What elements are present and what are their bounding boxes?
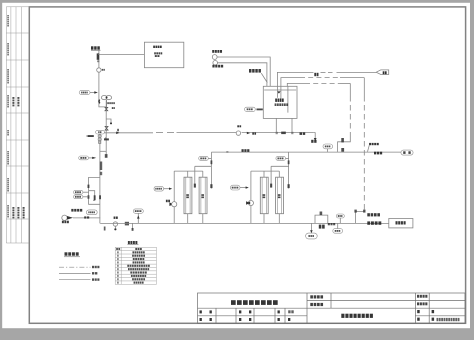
company name 中国环境保护公司	[231, 300, 236, 305]
valve on drop C	[341, 138, 344, 142]
flow arrow A1	[116, 132, 119, 135]
label 日	[417, 318, 420, 321]
instrument bubble FI2	[86, 210, 97, 215]
legend line 3 solid	[59, 279, 91, 281]
strainer chain under FI1	[98, 135, 101, 138]
drain loop on header	[315, 215, 328, 223]
dark component on header	[319, 225, 322, 229]
concentrate line C	[287, 83, 305, 86]
RO bank 2 inlet arrow	[246, 202, 250, 205]
pump P1 label	[107, 102, 109, 104]
inline flow indicator FI1	[96, 130, 105, 134]
sheet size A 2	[288, 310, 290, 313]
valve V3 bowtie	[105, 126, 108, 130]
drawing title 反渗透系统流程图	[341, 314, 344, 318]
bypass valve marks	[88, 185, 90, 188]
RO bank 1 vessels and piping	[184, 177, 192, 214]
legend line 2 solid	[59, 272, 91, 274]
legend line 1 dash-dot	[59, 266, 91, 268]
title block grid	[198, 293, 466, 323]
equipment table title 设备材料表	[128, 241, 130, 244]
valve V2 discharge	[105, 107, 108, 110]
bypass loop	[89, 177, 100, 204]
label 浓水	[314, 73, 316, 76]
pump P2 on header	[236, 131, 240, 135]
RO bank 2 vessels and piping	[260, 177, 268, 214]
drain oval 2	[337, 223, 339, 228]
sample branch with valve	[100, 150, 106, 152]
product line	[211, 151, 401, 153]
joint mark drop 1	[276, 132, 278, 134]
waste treatment box	[389, 219, 413, 228]
label 设计阶段	[417, 302, 419, 305]
instrument bubble PI4	[133, 209, 143, 213]
label 项目名称	[310, 303, 313, 306]
bypass inner branch	[89, 191, 95, 201]
dosing unit D1	[212, 55, 217, 60]
sample point branch	[106, 119, 111, 124]
instrument bubble stack 1	[74, 190, 83, 194]
product end oval	[401, 150, 413, 155]
date 2015.08.10	[437, 318, 439, 321]
level instrument LT1	[245, 107, 256, 111]
pump P1	[101, 96, 107, 100]
label on header	[300, 132, 303, 135]
tank dip tube 1	[276, 86, 278, 98]
raw water inlet tag	[91, 46, 93, 49]
valve V9 on header	[125, 222, 129, 226]
drain hook	[313, 133, 315, 139]
instrument bubble LI1	[79, 91, 90, 95]
RO bank 1 pump label	[166, 200, 168, 203]
tank fill arrow	[277, 91, 280, 93]
label 图	[417, 310, 420, 313]
flag to reuse	[376, 70, 389, 75]
left signature strip table	[6, 7, 29, 243]
left strip vertical labels	[7, 15, 24, 218]
drain branch with oval	[310, 223, 312, 233]
label before waste box	[367, 213, 370, 216]
dosing unit D2	[213, 61, 218, 66]
instrument oval PH1	[323, 144, 333, 149]
valve V8	[100, 172, 102, 175]
tank label 中间水箱	[275, 99, 277, 102]
tick on product line	[226, 151, 228, 153]
bottom header pipe	[100, 222, 389, 224]
dark bar under product line	[374, 152, 376, 155]
dosing line 2	[219, 63, 267, 87]
tank outlet drop 1	[275, 118, 277, 132]
feed pipe vertical	[99, 50, 106, 107]
legend title 管道图例	[65, 252, 68, 255]
pump discharge pipe	[105, 100, 107, 157]
signature mini cells	[200, 310, 291, 321]
label on product line	[242, 149, 244, 152]
tank volume label	[275, 103, 277, 106]
tank dip tube 2	[280, 86, 282, 100]
label 号	[432, 310, 435, 313]
label 建设单位	[310, 295, 313, 298]
main downcomer	[99, 134, 101, 223]
instrument bubble PI5a	[154, 186, 164, 191]
label 期	[432, 318, 435, 321]
equipment table rows	[116, 248, 150, 284]
intermediate tank T1	[263, 86, 297, 118]
tank outlet drop 2	[291, 118, 293, 132]
flow meter FM1	[97, 68, 101, 72]
pipe to pretreatment box	[98, 53, 144, 55]
label 项目编号	[417, 295, 419, 298]
valve between drops	[281, 132, 286, 135]
check valve CV1	[113, 222, 117, 226]
permeate flag line	[277, 72, 313, 86]
concentrate line B	[281, 78, 300, 87]
pretreatment unit box	[144, 42, 183, 67]
valve V1 on feed	[97, 53, 100, 59]
dark mark right of junction	[105, 137, 106, 138]
label on CIP line	[84, 216, 86, 218]
equipment table grid	[115, 247, 156, 284]
tick below header 1	[104, 227, 106, 231]
label above product line	[369, 143, 371, 145]
header pipe upper	[104, 132, 153, 134]
instrument above header	[336, 214, 344, 218]
CIP pump P3	[62, 215, 67, 220]
valve V7	[100, 162, 102, 171]
instrument bubble PI5	[230, 185, 240, 190]
tank dip tube 3	[287, 86, 289, 112]
valve marks on drop B	[354, 210, 356, 213]
tick below header 2	[132, 223, 134, 228]
label 清洗水	[71, 209, 73, 212]
CIP discharge	[73, 217, 100, 219]
instrument bubble PI2	[79, 156, 89, 160]
joint mark drop 2	[291, 132, 293, 134]
flow arrow A2 with label	[247, 132, 250, 134]
dosing line 1	[219, 57, 270, 86]
instrument bubble stack 2	[74, 195, 83, 199]
label near tank top	[249, 69, 251, 73]
